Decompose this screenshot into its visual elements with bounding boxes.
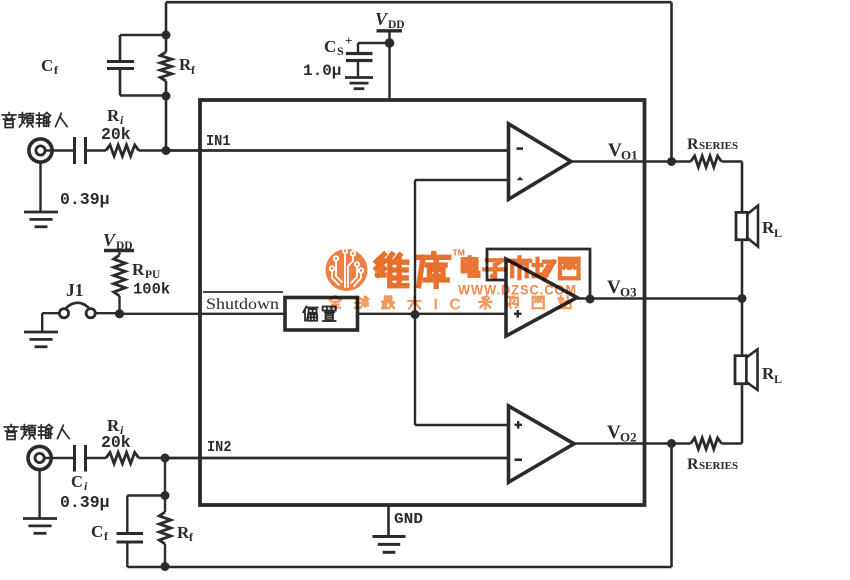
capacitor Cf (bottom channel) — [126, 496, 128, 534]
resistor Ri 20k (ch2) — [106, 452, 139, 463]
node: Cf1/Rf1 bottom junction — [162, 92, 171, 101]
node: IN2 junction — [161, 454, 170, 463]
svg-text:20k: 20k — [101, 433, 131, 452]
op-amp1 inverting mark — [517, 147, 524, 150]
resistor Rf (bottom channel) — [164, 496, 166, 513]
connector: RCA jack input 1 — [29, 139, 52, 162]
svg-text:V: V — [103, 230, 117, 250]
wire: J1 to ground — [42, 312, 59, 314]
ground for CS — [345, 76, 373, 79]
ground for IC GND — [373, 535, 406, 538]
wire: top stub to Cf1 — [120, 34, 166, 37]
node: bias trunk / shutdown row junction — [411, 310, 420, 319]
op-amp U3 (middle, VO3) — [506, 259, 577, 336]
wire: trunk down to IN1 node — [165, 96, 168, 150]
svg-text:0.39μ: 0.39μ — [60, 493, 110, 512]
svg-text:R: R — [132, 260, 145, 279]
svg-text:C: C — [91, 522, 103, 541]
svg-text:SERIES: SERIES — [699, 140, 738, 152]
wire: VDD lead down to IC box — [388, 31, 390, 100]
node: IN1 junction — [162, 146, 171, 155]
wire: Ri2 to IN2 node — [139, 457, 165, 459]
svg-text:C: C — [71, 472, 83, 491]
op-amp2 non-inverting mark — [515, 424, 523, 426]
resistor RPU 100k pull-up — [118, 251, 120, 256]
svg-text:R: R — [687, 136, 699, 153]
wire: internal bias trunk vertical — [414, 180, 416, 425]
svg-text:V: V — [375, 9, 389, 29]
node: Cf1/Rf1 top junction — [162, 31, 171, 40]
svg-text:S: S — [337, 44, 344, 58]
svg-text:L: L — [774, 372, 782, 386]
wire: bias block to op-amp3 + input — [358, 313, 507, 315]
wire: branch to CS — [358, 42, 390, 44]
svg-text:C: C — [450, 297, 461, 314]
svg-text:C: C — [324, 37, 336, 56]
svg-text:V: V — [607, 277, 621, 298]
wire: bottom feedback rail to VO2 — [127, 566, 671, 569]
watermark text weiku — [376, 254, 407, 285]
resistor RSERIES (bottom) — [691, 438, 722, 449]
wire: Ri1 to IN1 node — [139, 149, 166, 151]
svg-text:IN1: IN1 — [206, 133, 231, 150]
wire: jack2 to coupling cap — [45, 457, 74, 459]
capacitor Cf (top channel), lead down — [119, 35, 122, 61]
wire: J1 to RPU node — [95, 312, 119, 314]
node: bottom rail junction — [161, 562, 170, 571]
node: VO3 junction — [738, 294, 747, 303]
resistor RSERIES (top) — [691, 156, 722, 167]
wire: op-amp1 output VO1 — [571, 160, 691, 162]
node: J1 / RPU junction — [115, 309, 124, 318]
op-amp2 inverting mark — [515, 458, 523, 461]
label: bias (Chinese pianzhi) — [303, 307, 317, 321]
svg-text:0.39μ: 0.39μ — [60, 190, 110, 209]
wire: GND stub — [387, 505, 390, 536]
svg-text:PU: PU — [145, 269, 161, 281]
svg-text:V: V — [608, 140, 622, 161]
wire: shutdown from J1 into box to bias block — [119, 313, 285, 315]
node: op-amp3 output junction — [586, 295, 595, 304]
svg-text:SERIES: SERIES — [699, 460, 738, 472]
label: audio input 1 (Chinese) — [2, 113, 16, 128]
ground for jack1 — [39, 162, 41, 212]
svg-text:L: L — [774, 226, 782, 240]
svg-text:I: I — [434, 297, 438, 314]
ground for jack2 — [38, 470, 40, 519]
wire: right drop from top rail to VO1 node — [670, 2, 673, 161]
op-amp IC package box — [200, 100, 645, 505]
wire: IN1 into IC to op-amp1 inverting input — [166, 149, 508, 152]
resistor Rf (top channel) — [165, 35, 168, 52]
svg-text:R: R — [687, 456, 699, 473]
svg-text:+: + — [345, 33, 352, 48]
capacitor CS 1.0u bypass — [346, 52, 373, 55]
svg-text:20k: 20k — [101, 125, 131, 144]
wire: op-amp3 unity feedback loop — [487, 249, 590, 299]
speaker RL (bottom) — [735, 356, 746, 384]
wire: trunk IN2 node down — [164, 458, 166, 496]
connector: RCA jack input 2 — [28, 446, 51, 469]
wire: IN2 into IC to op-amp2 inverting input — [165, 457, 508, 460]
ground for J1 — [24, 331, 58, 334]
node: VO2 junction — [667, 439, 676, 448]
watermark slogan — [330, 296, 341, 308]
node: VO1 junction — [667, 157, 676, 166]
watermark: dzsc logo and text — [326, 248, 579, 314]
speaker RL (top) — [736, 212, 747, 239]
op-amp1 non-inverting mark — [517, 177, 524, 181]
watermark text dianzishichangwang — [463, 257, 479, 276]
wire: top feedback rail VO1 to Cf1/Rf1 — [166, 1, 672, 4]
label: audio input 2 (Chinese) — [4, 425, 18, 440]
svg-text:O3: O3 — [620, 285, 637, 300]
wire: VO3 node to speaker2 — [741, 299, 744, 356]
wire: RSERIES to speaker1 — [722, 160, 743, 162]
op-amp3 non-inverting mark — [514, 313, 522, 315]
label Shutdown with overline — [203, 291, 283, 293]
svg-text:100k: 100k — [133, 281, 170, 299]
wire: speaker1 to VO3 node — [741, 240, 744, 299]
wire: cap to Ri1 — [86, 149, 106, 151]
wire: op-amp2 output VO2 — [574, 442, 691, 444]
wire: bias trunk to op-amp1 lower input — [415, 179, 508, 181]
capacitor 0.39u input coupling (ch1) — [73, 137, 76, 164]
wire: stub to Cf2 — [127, 494, 165, 496]
svg-text:V: V — [607, 422, 621, 443]
wire: op-amp3 output — [577, 297, 742, 299]
svg-text:C: C — [41, 56, 53, 75]
node: Cf2/Rf2 top junction — [161, 491, 170, 500]
svg-text:GND: GND — [394, 511, 423, 528]
wire: jack1 to coupling cap — [46, 149, 75, 151]
node: VDD / CS junction — [385, 38, 395, 48]
block: bias (pianzhi) box — [285, 298, 358, 331]
switch J1 (jumper) — [59, 309, 68, 318]
svg-text:1.0μ: 1.0μ — [303, 62, 341, 80]
wire: bias trunk to op-amp2 upper input — [415, 424, 508, 426]
resistor Ri 20k (ch1) — [106, 145, 139, 156]
svg-text:O2: O2 — [620, 430, 637, 445]
svg-text:R: R — [107, 106, 120, 125]
svg-text:J1: J1 — [66, 280, 84, 300]
capacitor Ci 0.39u input coupling (ch2) — [73, 445, 76, 472]
svg-text:Shutdown: Shutdown — [206, 296, 279, 313]
wire: bottom stub from Cf1 — [120, 94, 166, 97]
op-amp U2 (bottom, VO2) — [509, 406, 575, 482]
wire: left drop from top rail to feedback node — [165, 2, 168, 35]
wire: speaker2 down to RSERIES2 — [741, 384, 744, 444]
svg-text:IN2: IN2 — [207, 439, 232, 456]
svg-text:O1: O1 — [621, 148, 638, 163]
wire: cap to Ri2 — [86, 457, 106, 459]
op-amp U1 (top, VO1) — [509, 124, 572, 200]
svg-text:WWW.DZSC.COM: WWW.DZSC.COM — [458, 283, 577, 298]
svg-text:TM: TM — [453, 248, 465, 258]
